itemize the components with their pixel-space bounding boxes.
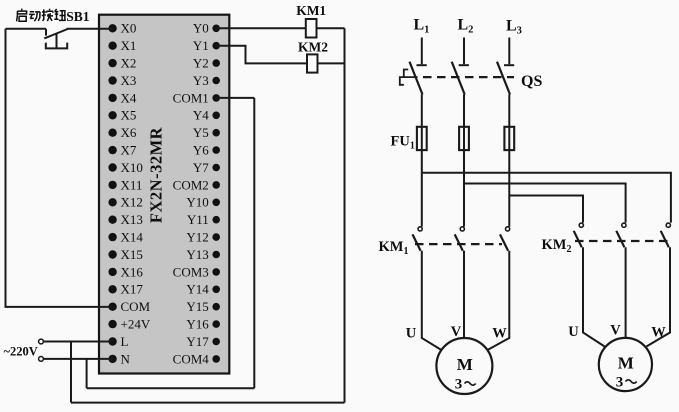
contactor KM2 linkage (dashed) [575,240,668,242]
PLC output terminal pin Y13 [186,247,220,262]
svg-text:W: W [492,326,507,342]
svg-text:SB1: SB1 [66,9,90,24]
PLC input terminal pin X3 [108,73,136,88]
PLC output terminal pin Y16 [186,317,220,332]
svg-text:M: M [618,354,634,373]
svg-text:Y15: Y15 [186,299,208,314]
PLC input terminal pin X0 [108,21,136,36]
PLC input terminal pin X10 [108,160,142,175]
svg-text:3: 3 [616,375,624,391]
svg-text:3: 3 [455,377,463,393]
svg-text:COM3: COM3 [173,264,209,279]
wire: N phase drop to COM1 bus [86,359,88,388]
svg-text:+24V: +24V [121,317,151,332]
PLC input terminal pin N [108,351,130,366]
svg-text:Y7: Y7 [193,160,209,175]
svg-text:X2: X2 [121,56,137,71]
svg-text:X10: X10 [121,160,143,175]
svg-text:Y1: Y1 [193,38,209,53]
PLC input terminal pin COM [108,299,150,314]
PLC input terminal pin X1 [108,38,136,53]
wire: bottom bus (L) to KM coil rail [71,402,345,404]
PLC input terminal pin X2 [108,56,136,71]
PLC output terminal pin Y15 [186,299,220,314]
PLC input terminal pin X14 [108,230,143,245]
wire: QS to fuse, phase L2 [463,95,465,127]
wire: KM coil right rail (vertical) [344,28,346,402]
wire: source to PLC terminal L [43,341,112,343]
PLC input terminal pin +24V [108,317,150,332]
svg-text:Y3: Y3 [193,73,209,88]
PLC output terminal pin Y4 [193,108,220,123]
svg-text:X0: X0 [121,21,137,36]
PLC output terminal pin Y10 [186,195,220,210]
svg-text:X4: X4 [121,90,137,105]
svg-text:Y0: Y0 [193,21,209,36]
PLC input terminal pin X5 [108,108,136,123]
PLC input terminal pin X6 [108,125,136,140]
wire: COM1 terminal to bus [216,97,254,99]
svg-text:Y6: Y6 [193,143,209,158]
source terminal node N (circle) [39,357,44,362]
supply lead L3 with end bar [504,38,514,66]
contactor KM1 main contact pole 2 [455,227,465,251]
wire: Y0 to coil KM1 [216,27,306,29]
svg-text:X12: X12 [121,195,143,210]
source terminal node L (circle) [39,339,44,344]
PLC output terminal pin Y2 [193,56,220,71]
wire: KM2 pole2 to motor M2 terminal V [625,247,627,338]
wire: source to PLC terminal N [43,358,112,360]
wire: KM1 pole3 to motor M1 terminal W [487,251,510,351]
pushbutton SB1 normally-open contact [44,29,67,39]
svg-text:KM2: KM2 [298,40,328,55]
coil KM1 [306,19,317,38]
PLC output terminal pin Y6 [193,143,220,158]
wire: QS to fuse, phase L1 [421,95,423,127]
svg-text:Y17: Y17 [186,334,209,349]
wire: L1 fuse down to KM1 pole 1 [421,150,423,227]
supply lead L1 with end bar [417,38,427,66]
pushbutton SB1 actuator [46,34,67,49]
contactor KM1 main contact pole 3 [500,227,510,251]
svg-text:Y4: Y4 [193,108,209,123]
PLC input terminal pin X11 [108,177,142,192]
PLC input terminal pin L [108,334,128,349]
wire: COM1 bottom bus [87,387,255,389]
svg-text:W: W [651,325,666,341]
supply lead L2 with end bar [459,38,469,66]
svg-text:X15: X15 [121,247,143,262]
PLC input terminal pin X17 [108,282,143,297]
svg-text:U: U [406,326,417,342]
svg-text:Y16: Y16 [186,317,209,332]
contactor KM1 linkage (dashed) [415,243,502,245]
wire: branch L2 to KM2 pole 2 [464,184,626,223]
PLC output terminal pin COM4 [173,351,220,366]
svg-text:Y11: Y11 [187,212,209,227]
PLC output terminal pin Y14 [186,282,220,297]
svg-text:COM4: COM4 [173,351,210,366]
svg-text:Y5: Y5 [193,125,209,140]
svg-text:X3: X3 [121,73,137,88]
svg-text:L: L [121,334,129,349]
svg-text:N: N [121,351,131,366]
PLC output terminal pin Y11 [187,212,220,227]
wire: branch L1 to KM2 pole 3 [422,173,671,223]
svg-text:X6: X6 [121,125,137,140]
svg-text:Y10: Y10 [186,195,208,210]
wire: COM1 bus vertical right of PLC [253,98,255,388]
svg-text:X17: X17 [121,282,144,297]
contactor KM2 main contact pole 3 [661,223,671,247]
svg-text:Y13: Y13 [186,247,208,262]
PLC output terminal pin Y7 [193,160,220,175]
svg-text:~220V: ~220V [4,345,38,359]
PLC output terminal pin COM2 [173,177,220,192]
svg-text:V: V [610,323,621,339]
svg-text:X7: X7 [121,143,137,158]
PLC input terminal pin X13 [108,212,142,227]
coil KM2 [307,54,318,72]
PLC input terminal pin X4 [108,90,136,105]
svg-text:KM1: KM1 [296,3,326,18]
svg-text:COM: COM [121,299,151,314]
PLC output terminal pin Y0 [193,21,220,36]
fuse FU1a body [417,127,427,150]
wire: KM2 pole3 to motor M2 terminal W [646,247,670,346]
svg-text:QS: QS [521,73,542,90]
wire: SB1 down-left rail to COM [6,29,113,307]
PLC input terminal pin X16 [108,264,143,279]
PLC input terminal pin X7 [108,143,136,158]
svg-text:COM2: COM2 [173,177,209,192]
motor M2 (3-phase) [599,338,652,391]
wire: KM2 pole1 to motor M2 terminal U [583,247,605,346]
wire: QS to fuse, phase L3 [508,95,510,127]
wire: L3 fuse down to KM1 pole 3 [508,150,510,227]
svg-text:X16: X16 [121,264,144,279]
wire: left feed to SB1 [6,28,47,30]
svg-text:COM1: COM1 [173,90,209,105]
svg-text:Y14: Y14 [186,282,209,297]
wire: SB1 to input X0 [67,28,113,30]
PLC module U1 body (FX2N-32MR) [99,15,229,374]
contactor KM2 main contact pole 2 [616,223,626,247]
PLC output terminal pin Y12 [186,230,220,245]
fuse FU1b body [459,127,469,150]
PLC input terminal pin X15 [108,247,142,262]
svg-text:X5: X5 [121,108,137,123]
wire: Y1 to coil KM2 [216,46,307,64]
svg-text:X13: X13 [121,212,143,227]
PLC output terminal pin Y1 [193,38,220,53]
PLC output terminal pin COM3 [173,264,220,279]
wire: L2 fuse down to KM1 pole 2 [463,150,465,227]
wire: coil KM1 to right rail [317,27,345,29]
motor M1 (3-phase) [436,338,492,394]
svg-text:Y2: Y2 [193,56,209,71]
wire through fuse FU1b [463,127,465,150]
switch QS handle mark [400,70,418,85]
wire: KM1 pole2 to motor M1 terminal V [463,251,465,339]
contactor KM1 main contact pole 1 [413,227,423,251]
switch QS blade pole 1 [410,62,423,95]
svg-text:FX2N-32MR: FX2N-32MR [146,126,165,223]
svg-text:Y12: Y12 [186,230,208,245]
PLC output terminal pin Y3 [193,73,220,88]
switch QS blade pole 2 [452,62,465,95]
svg-text:X14: X14 [121,230,144,245]
wire: KM1 pole1 to motor M1 terminal U [422,251,442,351]
contactor KM2 main contact pole 1 [574,223,584,247]
PLC output terminal pin Y17 [186,334,220,349]
fuse FU1c body [504,127,514,150]
svg-text:X1: X1 [121,38,137,53]
wire through fuse FU1c [508,127,510,150]
switch QS blade pole 3 [497,62,510,95]
svg-text:X11: X11 [121,177,143,192]
wire: branch L3 to KM2 pole 1 [509,196,583,223]
svg-text:U: U [568,324,579,340]
wire: L phase drop to bottom bus [70,342,72,403]
PLC output terminal pin Y5 [193,125,220,140]
PLC input terminal pin X12 [108,195,142,210]
switch QS linkage (dashed) [423,76,514,78]
wire: coil KM2 to right rail [318,62,345,64]
svg-text:M: M [457,355,473,374]
wire through fuse FU1a [421,127,423,150]
label: start button SB1 (Chinese qi dong an niu SB1) [17,9,66,22]
PLC output terminal pin COM1 [173,90,220,105]
